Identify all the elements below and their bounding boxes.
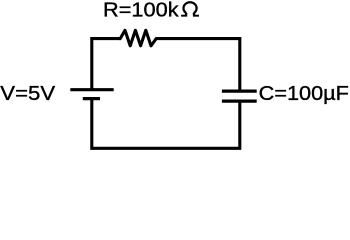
wire top-right segment (resistor to top-right corner, down to capacitor): [156, 39, 240, 91]
wire bottom segment (capacitor down, bottom side, up to battery -): [92, 99, 240, 148]
resistor R zigzag: [120, 30, 156, 46]
svg-text:R=100k: R=100k: [103, 0, 179, 22]
battery V long plate (+): [70, 88, 113, 91]
wire left-top segment (battery + up to top-left corner, right to resistor): [92, 39, 121, 90]
svg-text:V=5V: V=5V: [0, 83, 55, 105]
label omega of R value (drawn glyph): [181, 2, 199, 16]
capacitor C bottom plate: [222, 99, 257, 102]
svg-text:C=100µF: C=100µF: [259, 83, 349, 105]
battery V short plate (-): [83, 97, 100, 100]
capacitor C top plate: [222, 89, 257, 92]
